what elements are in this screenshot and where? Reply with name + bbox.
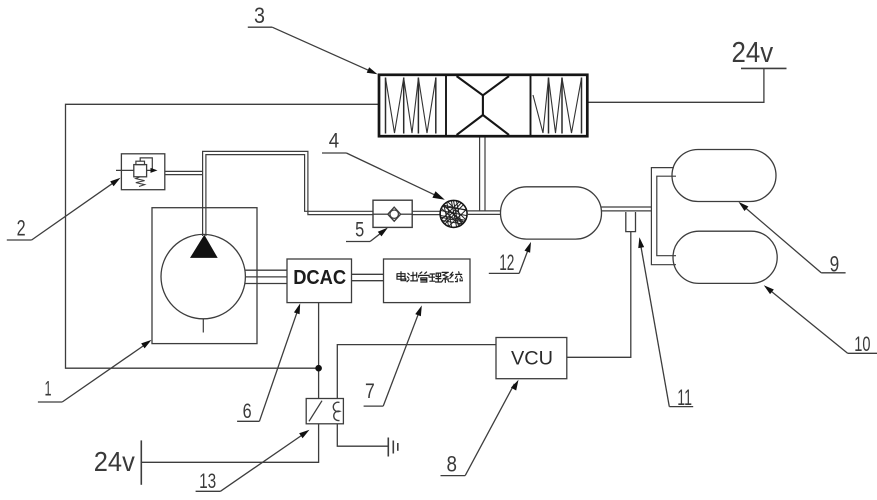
label 11 [636,237,693,410]
电 [397,272,406,281]
label 4 [322,128,446,203]
label 9 [737,200,846,277]
pipe: fan 4 to air tank 12 [467,211,501,215]
wire: three phase lines compressor to DCAC [245,270,287,283]
label 7 [364,304,425,406]
label 13 [196,427,312,493]
label 8 [441,378,522,476]
理 [430,273,441,282]
系 [442,272,449,282]
svg-text:1: 1 [45,378,52,401]
svg-text:13: 13 [199,469,216,493]
node junction dot [315,365,322,372]
wire: DCAC to battery management double line [352,274,384,280]
air tank 10 [673,231,777,283]
label 12 [489,241,534,275]
统 [450,272,462,282]
svg-text:DCAC: DCAC [293,267,346,289]
pipe: manifold to tanks 9 and 10 [651,168,676,265]
compressor unit 1 [152,208,257,344]
relay 13 [306,399,343,424]
pipe: compressor output up over to check valve (inner line) [206,155,373,236]
pipe: compressor output up over to check valve (outer line) [203,151,373,236]
air tank 12 [501,187,602,239]
svg-text:12: 12 [499,250,514,275]
svg-text:24v: 24v [732,37,774,69]
svg-text:8: 8 [447,451,458,476]
pipe: air tank 12 to manifold [602,207,652,211]
pipe: heat exchanger bottom drop [480,136,485,211]
VCU 8 [496,338,567,379]
wire: 24v bottom to relay 13 [141,424,318,462]
ground [388,438,398,457]
wire: heat exchanger right lead to 24v top [587,68,764,102]
label 3 [248,3,379,77]
wire: heat exchanger left lead to left rail down to junction [66,104,380,368]
svg-text:7: 7 [365,379,375,403]
label 1 [38,337,153,402]
air tank 9 [672,150,776,202]
svg-text:10: 10 [854,332,870,356]
svg-text:24v: 24v [94,446,135,477]
24v supply top [732,37,787,69]
pipe: regulator valve 2 to riser [165,171,203,174]
24v supply bottom [94,440,142,484]
wire: VCU right to pressure sensor 11 [567,232,631,358]
text: battery management system chinese glyphs [397,272,462,283]
svg-text:4: 4 [329,128,339,152]
DCAC inverter 6 [287,259,352,303]
svg-text:3: 3 [254,3,265,28]
heat exchanger 3 [379,75,587,136]
pipe: check valve 5 to fan 4 [412,211,440,214]
label 10 [762,283,877,356]
wire: relay 13 to ground [337,424,387,446]
池 [407,272,417,282]
svg-text:2: 2 [17,216,26,241]
battery management system 7 [384,259,471,303]
fan 4 [438,198,469,229]
svg-text:6: 6 [243,399,252,423]
svg-text:5: 5 [355,218,364,242]
pressure sensor 11 [626,212,636,232]
check valve 5 [373,200,412,227]
label 6 [237,302,303,423]
label 5 [346,218,390,242]
svg-text:VCU: VCU [511,347,553,369]
wire: DCAC bottom to junction to relay 13 top [318,303,320,399]
wire: relay 13 to VCU left [337,345,496,399]
regulator valve 2 [116,154,165,190]
label 2 [7,175,122,240]
管 [419,272,429,282]
